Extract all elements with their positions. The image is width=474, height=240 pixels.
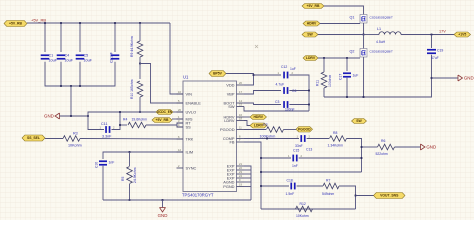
port +5V_RB input [4, 21, 27, 27]
svg-text:17V: 17V [439, 30, 446, 34]
capacitor C3 (boot) [283, 101, 288, 108]
wire R11 top lead [323, 58, 325, 72]
wire to C18 [261, 185, 289, 187]
svg-text:522ohm: 522ohm [376, 152, 388, 156]
wire comp row D [261, 171, 362, 173]
svg-text:10Kohm: 10Kohm [296, 214, 309, 218]
wire exp stub [244, 169, 251, 171]
wire ground rail [103, 199, 251, 201]
wire R5 bottom lead [129, 184, 131, 200]
wire to sense port [356, 195, 374, 197]
svg-text:VBP: VBP [227, 91, 235, 96]
resistor R10 [137, 81, 143, 97]
svg-text:R8: R8 [333, 131, 337, 135]
wire port to MS pin [172, 118, 183, 120]
resistor R4 [128, 122, 146, 128]
port HDRV a [250, 115, 267, 120]
svg-text:R7: R7 [326, 179, 330, 183]
svg-text:PGOOD: PGOOD [298, 127, 311, 131]
resistor R2 [267, 127, 284, 133]
power port GND right [458, 75, 474, 81]
wire Q1 gate [320, 23, 360, 25]
wire Q2 gate [318, 57, 360, 59]
resistor R12 [296, 206, 313, 212]
wire exp stub [244, 165, 251, 167]
svg-text:C16: C16 [95, 162, 99, 168]
wire VBP to C6 [244, 91, 281, 95]
svg-text:R4: R4 [123, 117, 127, 121]
svg-text:+5V_RB: +5V_RB [156, 118, 169, 122]
port SS [22, 135, 45, 141]
U1 right pin numbers [239, 81, 242, 187]
svg-text:R6: R6 [381, 139, 385, 143]
wire gnd symbol stub [162, 200, 164, 208]
svg-text:10uF: 10uF [49, 59, 58, 63]
svg-text:C4: C4 [65, 54, 70, 58]
svg-text:VDD: VDD [226, 82, 234, 87]
svg-text:1.5nF: 1.5nF [286, 192, 295, 196]
svg-text:C3: C3 [275, 100, 279, 104]
capacitor C17 [343, 72, 351, 77]
port HDRV fet [303, 21, 320, 26]
wire R4 left lead [120, 124, 127, 126]
transistor Q1 [360, 15, 367, 24]
junction [139, 63, 141, 65]
junction [361, 157, 363, 159]
svg-text:ILIM: ILIM [186, 149, 194, 154]
wire C1 top lead [44, 23, 46, 52]
junction [79, 85, 81, 87]
wire C17 top lead [346, 58, 348, 71]
wire C19 top lead [431, 35, 433, 49]
resistor R8 [330, 136, 347, 142]
svg-text:U1: U1 [183, 75, 189, 80]
port VOUT [454, 32, 471, 37]
wire R9 bottom lead [139, 57, 141, 64]
resistor R7 [323, 183, 339, 189]
svg-text:1uF: 1uF [353, 74, 359, 78]
junction [60, 22, 62, 24]
svg-text:LDRV: LDRV [224, 118, 235, 123]
resistor R6 [378, 144, 395, 150]
svg-text:1.34Kohm: 1.34Kohm [328, 144, 344, 148]
svg-text:+5V_RB: +5V_RB [31, 18, 46, 23]
svg-text:SW: SW [228, 104, 235, 109]
junction [355, 195, 357, 197]
wire C11 right lead [112, 112, 121, 130]
svg-text:10Kohm: 10Kohm [68, 144, 82, 148]
wire to gnd arrow [432, 77, 459, 79]
wire C3 right lead [289, 104, 309, 106]
junction [346, 96, 348, 98]
U1 right pin stubs [237, 85, 245, 187]
wire EXP ladder [244, 166, 251, 200]
wire C17 bottom lead [346, 78, 348, 97]
wire bus to gnd net [70, 86, 72, 116]
svg-text:VIN: VIN [186, 91, 193, 96]
wire gnd stub [60, 115, 89, 117]
op-amp U1 TPS40170RGYT body [183, 81, 237, 192]
capacitor C4 [57, 54, 66, 59]
svg-text:33nF: 33nF [295, 144, 303, 148]
junction [363, 34, 365, 36]
wire R9 top lead [139, 23, 141, 41]
svg-text:R10 165ohm: R10 165ohm [130, 79, 134, 99]
svg-text:C17: C17 [339, 74, 343, 80]
wire to LDRV port [244, 121, 250, 126]
junction [266, 138, 268, 140]
wire PGOOD to R2 [244, 129, 266, 131]
svg-text:1nF: 1nF [109, 161, 115, 165]
svg-text:SYNC: SYNC [186, 165, 197, 170]
inductor L1 [379, 32, 401, 35]
resistor R3 [63, 136, 80, 142]
junction [139, 22, 141, 24]
wire R4 to SS pin [177, 125, 183, 127]
svg-text:C12: C12 [281, 65, 287, 69]
wire C4 top lead [60, 23, 62, 52]
svg-text:47uF: 47uF [431, 56, 439, 60]
svg-text:DCDC_EN: DCDC_EN [157, 110, 173, 114]
svg-text:+1V5: +1V5 [458, 33, 466, 37]
port VOUT_SNS [374, 193, 406, 199]
svg-text:R12: R12 [300, 202, 306, 206]
svg-text:549ohm: 549ohm [322, 192, 334, 196]
svg-text:ENABLE: ENABLE [186, 100, 202, 105]
port PGOOD [296, 127, 313, 133]
junction [253, 74, 255, 76]
capacitor C16 [99, 160, 107, 165]
junction [260, 171, 262, 173]
port mode [152, 118, 172, 123]
wire R10 bottom lead [139, 97, 141, 112]
wire C4 bottom lead [60, 62, 62, 86]
svg-text:+5V_RB: +5V_RB [307, 4, 320, 8]
svg-text:19.6Kohm: 19.6Kohm [132, 117, 148, 121]
svg-text:C5: C5 [84, 54, 89, 58]
port SW small [352, 119, 367, 124]
wire COMP row [244, 138, 299, 140]
svg-text:C1: C1 [49, 54, 54, 58]
svg-text:BP5V: BP5V [213, 72, 223, 76]
port +5V_RB fet [302, 4, 324, 9]
svg-text:1nF: 1nF [292, 164, 298, 168]
wire C11 left lead [88, 116, 104, 130]
wire port to UVLO pin [173, 111, 183, 113]
svg-text:4.7uF: 4.7uF [276, 83, 285, 87]
wire C16 bottom lead [102, 166, 104, 200]
svg-text:C11: C11 [101, 122, 108, 126]
wire power gnd rail [324, 55, 432, 97]
junction [114, 22, 116, 24]
wire Q1 drain [324, 6, 364, 15]
junction [119, 111, 121, 113]
wire R6 to gnd [395, 146, 421, 148]
svg-text:Q2: Q2 [350, 50, 355, 54]
svg-text:UVLO: UVLO [186, 109, 197, 114]
svg-text:+5V_RB: +5V_RB [9, 22, 22, 26]
junction [129, 151, 131, 153]
wire L1 to output port [401, 34, 454, 36]
capacitor C13 [300, 135, 305, 142]
wire exp stub [244, 177, 251, 179]
no-ERC marker [255, 45, 258, 48]
junction [119, 124, 121, 126]
wire R8 to comp bus [347, 139, 362, 173]
svg-text:PGND: PGND [223, 184, 234, 189]
wire FB vertical bus [244, 142, 261, 209]
svg-text:SS: SS [186, 124, 192, 129]
wire +5V rail [27, 22, 170, 24]
svg-text:SW: SW [356, 119, 362, 123]
svg-text:R5: R5 [121, 177, 125, 181]
wire to VIN pin [170, 23, 183, 94]
svg-text:10uF: 10uF [84, 59, 93, 63]
svg-text:C13: C13 [306, 148, 312, 152]
svg-text:R3: R3 [73, 131, 78, 135]
wire Q1 source to SW [363, 23, 365, 35]
capacitor C6 (VBP bypass) [283, 87, 288, 94]
power port GND mid-right [421, 144, 437, 150]
svg-text:100ohm: 100ohm [328, 75, 332, 87]
junction [139, 111, 141, 113]
svg-text:R2: R2 [263, 123, 268, 127]
svg-text:GND: GND [158, 213, 168, 218]
wire SW return [244, 107, 309, 112]
wire cap bank bottom bus [45, 62, 115, 86]
wire port to R3 [45, 138, 63, 140]
wire comp bus to R6 [362, 146, 378, 148]
svg-text:1uF: 1uF [290, 67, 296, 71]
svg-text:Q1: Q1 [350, 16, 355, 20]
svg-text:PGOOD: PGOOD [220, 127, 235, 132]
wire SW to Q2 drain [363, 35, 365, 49]
svg-text:C18: C18 [287, 179, 293, 183]
wire C6 right lead [289, 90, 309, 92]
wire to HDRV port [244, 116, 250, 118]
svg-text:CSD18503Q5B/T: CSD18503Q5B/T [370, 50, 394, 54]
svg-text:SW: SW [307, 33, 313, 37]
port DCDC_EN [156, 110, 173, 115]
U1 left pin names [186, 91, 202, 170]
resistor R9 [137, 41, 143, 57]
U1 left pin stubs [177, 94, 184, 168]
svg-text:GND: GND [44, 114, 54, 119]
svg-text:C6: C6 [292, 89, 296, 93]
capacitor C15 [292, 155, 297, 162]
wire C5 top lead [79, 23, 81, 52]
svg-text:C15: C15 [293, 149, 299, 153]
junction [60, 85, 62, 87]
capacitor C1 [41, 54, 50, 59]
capacitor C18 [290, 183, 295, 190]
U1 left pin numbers [178, 90, 181, 168]
port LDRV a [250, 123, 267, 128]
capacitor C5 [76, 54, 85, 59]
junction [260, 157, 262, 159]
wire C18 to R7 [297, 185, 323, 187]
svg-text:HDRV: HDRV [307, 22, 317, 26]
svg-text:24.9Kohm: 24.9Kohm [133, 167, 137, 183]
svg-text:GND: GND [464, 76, 474, 81]
U1 right pin names [220, 82, 235, 188]
wire exp stub [244, 173, 251, 175]
svg-text:4.5uH: 4.5uH [376, 40, 386, 44]
junction [79, 22, 81, 24]
wire BP to VDD [226, 74, 254, 86]
junction [70, 85, 72, 87]
svg-text:LDRV: LDRV [306, 56, 316, 60]
wire divider tap to ENABLE [140, 64, 183, 104]
svg-text:C19: C19 [437, 49, 443, 53]
wire C15 right lead [299, 157, 362, 159]
svg-text:FB: FB [230, 139, 235, 144]
svg-text:R9 44.9Kohm: R9 44.9Kohm [130, 36, 134, 57]
junction [162, 199, 164, 201]
wire C5 bottom lead [79, 62, 81, 86]
wire to C15 [261, 157, 291, 159]
junction [308, 104, 310, 106]
wire caps right bus [289, 75, 309, 111]
power port GND left [44, 113, 59, 119]
svg-text:L1: L1 [377, 27, 381, 31]
svg-text:TPS40170RGYT: TPS40170RGYT [182, 193, 214, 198]
wire C2 top lead [114, 23, 116, 52]
svg-text:R11: R11 [316, 80, 320, 86]
junction [129, 199, 131, 201]
junction [70, 115, 72, 117]
svg-text:HDRV: HDRV [253, 115, 263, 119]
wire Q2 source down [363, 57, 365, 97]
junction [308, 90, 310, 92]
resistor R11 [321, 72, 327, 88]
svg-text:CSD18503Q5B/T: CSD18503Q5B/T [370, 16, 394, 20]
wire UVLO net [88, 112, 156, 116]
wire exp stub [244, 186, 251, 188]
capacitor C2 [111, 54, 120, 59]
capacitor C11 [105, 126, 110, 133]
junction [44, 22, 46, 24]
svg-text:SS_SEL: SS_SEL [27, 136, 40, 140]
wire node to L1 [364, 34, 380, 36]
junction [363, 96, 365, 98]
wire R11 bottom lead [323, 88, 325, 97]
svg-text:TRK: TRK [186, 136, 194, 141]
junction [323, 57, 325, 59]
wire BOOT to C3 [244, 103, 281, 105]
wire R7 to corner [339, 186, 356, 209]
wire comp row F [261, 208, 356, 210]
svg-text:VOUT_SNS: VOUT_SNS [380, 194, 399, 198]
transistor Q2 [360, 49, 367, 58]
wire R4 to RT pin [146, 123, 183, 125]
wire R3 to TRK pin [80, 138, 183, 141]
capacitor C19 (output) [427, 49, 436, 54]
wire exp stub [244, 181, 251, 183]
wire R10 top lead [139, 64, 141, 80]
capacitor C12 (VDD bypass) [283, 72, 288, 79]
junction [260, 185, 262, 187]
svg-text:C2 1uF: C2 1uF [110, 52, 114, 63]
wire SW to node [318, 34, 364, 36]
svg-text:GND: GND [426, 145, 436, 150]
resistor R5 [127, 167, 133, 184]
wire R5 top lead [129, 152, 131, 166]
power port GND bottom [158, 208, 168, 219]
junction [431, 34, 433, 36]
port LDRV fet [303, 56, 318, 61]
junction [87, 115, 89, 117]
wire ILIM row [103, 152, 183, 159]
junction [431, 77, 433, 79]
svg-text:3.3nF: 3.3nF [102, 135, 112, 139]
svg-text:10uF: 10uF [65, 59, 74, 63]
junction [361, 146, 363, 148]
port SW fet [302, 32, 318, 37]
wire C1b left lead [254, 74, 282, 76]
wire R2 to port [284, 129, 297, 131]
wire C13 to R8 [307, 138, 329, 140]
port BP5V [209, 71, 226, 77]
junction [346, 57, 348, 59]
